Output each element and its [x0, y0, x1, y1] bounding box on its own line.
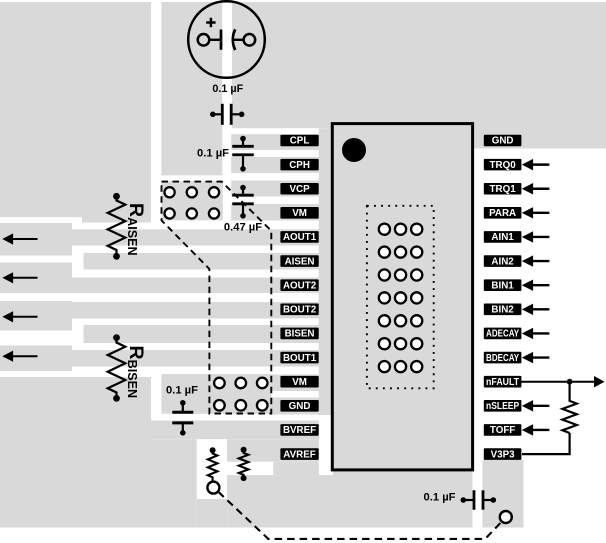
- trace BISEN: [84, 325, 332, 343]
- svg-text:PARA: PARA: [489, 208, 516, 219]
- trace AISEN: [84, 253, 332, 270]
- pin label TRQ1 (right col): [484, 183, 522, 195]
- svg-text:0.1 µF: 0.1 µF: [197, 148, 229, 160]
- svg-text:nSLEEP: nSLEEP: [486, 401, 520, 412]
- svg-text:AIN2: AIN2: [491, 256, 514, 267]
- pin label nFAULT (right col): [484, 376, 522, 388]
- node nFAULT junction: [567, 379, 573, 385]
- capacitor C1 0.1 uF (horizontal, VM bulk): [210, 104, 244, 125]
- capacitor C4 0.1 uF label (GND bypass, bottom-left): [166, 385, 198, 397]
- copper margin column along IC left edge: [319, 128, 331, 415]
- capacitor C2 0.1 uF label (CPL-CPH): [197, 148, 229, 160]
- pin label VM (left col): [280, 376, 318, 388]
- pin label BOUT1 (left col): [280, 352, 318, 364]
- pin label AIN1 (right col): [484, 231, 522, 243]
- input arrow into AIN2: [522, 255, 550, 266]
- pin label BIN1 (right col): [484, 279, 522, 291]
- trace VM bottom: [271, 375, 331, 392]
- input arrow into AIN1: [522, 231, 550, 242]
- svg-text:0.1 µF: 0.1 µF: [212, 83, 243, 95]
- input arrow into BDECAY: [522, 352, 550, 363]
- input arrow into PARA: [522, 207, 550, 218]
- capacitor C1 0.1 uF label (top): [212, 83, 243, 95]
- copper pour bottom-left block: [0, 377, 151, 528]
- svg-text:0.1 µF: 0.1 µF: [424, 492, 456, 504]
- svg-text:CPL: CPL: [290, 136, 310, 147]
- pin label AISEN (left col): [280, 255, 318, 267]
- wire pull-up to V3P3: [522, 433, 570, 454]
- capacitor C5 0.1 uF label (V3P3, bottom-right): [424, 492, 456, 504]
- capacitor C3 0.47 uF (VCP-VM): [232, 185, 254, 219]
- copper pour bottom-center blocks around BVREF/AVREF: [151, 421, 333, 528]
- svg-text:VM: VM: [292, 208, 307, 219]
- wire nFAULT to pull-up node: [521, 381, 570, 383]
- svg-text:nFAULT: nFAULT: [486, 377, 519, 388]
- pin label AIN2 (right col): [484, 255, 522, 267]
- output arrow BOUT1: [2, 351, 37, 362]
- output arrow BOUT2: [2, 311, 37, 322]
- capacitor C5 0.1 uF (V3P3 horizontal): [461, 490, 497, 510]
- op-amp U1 motor driver IC body: [332, 124, 472, 470]
- pin label BISEN (left col): [280, 328, 318, 340]
- trace AOUT2: [0, 263, 331, 294]
- svg-text:BVREF: BVREF: [283, 425, 316, 436]
- trace CPH: [231, 157, 331, 173]
- pin label ADECAY (right col): [484, 328, 522, 340]
- svg-text:RAISEN: RAISEN: [125, 203, 147, 256]
- svg-text:AOUT1: AOUT1: [283, 232, 317, 243]
- svg-text:0.1 µF: 0.1 µF: [166, 385, 198, 397]
- svg-text:BIN2: BIN2: [491, 305, 514, 316]
- pin label AVREF (left col): [280, 448, 318, 460]
- input arrow into BIN1: [522, 280, 550, 291]
- svg-text:CPH: CPH: [289, 160, 310, 171]
- resistor RBISEN: [108, 334, 147, 401]
- trace AOUT1: [0, 223, 331, 256]
- vias upper 3x2 grid: [165, 187, 220, 218]
- svg-text:GND: GND: [492, 136, 514, 147]
- resistor RAISEN: [108, 193, 147, 260]
- input arrow into nSLEEP: [522, 400, 550, 411]
- svg-text:TRQ1: TRQ1: [490, 184, 517, 195]
- pin label BOUT2 (left col): [280, 304, 318, 316]
- svg-text:BOUT2: BOUT2: [283, 305, 317, 316]
- copper pour top-right block: [331, 2, 606, 149]
- svg-text:VM: VM: [292, 377, 307, 388]
- resistor RVREF right: [239, 447, 249, 481]
- input arrow into ADECAY: [522, 328, 550, 339]
- svg-text:TRQ0: TRQ0: [490, 160, 517, 171]
- trace VCP: [231, 181, 331, 197]
- svg-text:AOUT2: AOUT2: [283, 280, 317, 291]
- capacitor C4 0.1 uF (bottom-left vertical): [172, 400, 193, 436]
- svg-text:V3P3: V3P3: [491, 449, 516, 460]
- pin label CPH (left col): [280, 159, 318, 171]
- capacitor C2 0.1 uF (CPL-CPH): [232, 136, 254, 172]
- svg-text:BIN1: BIN1: [491, 280, 514, 291]
- pin label GND (left col): [280, 400, 318, 412]
- copper pour V3P3 column: [483, 460, 524, 528]
- svg-text:GND: GND: [289, 401, 311, 412]
- pin label AOUT2 (left col): [280, 279, 318, 291]
- pin label nSLEEP (right col): [484, 400, 522, 412]
- dashed bottom trace to test pads: [218, 492, 501, 539]
- test pad bottom-right: [500, 511, 512, 523]
- copper pour center-bottom VM/GND via block: [161, 374, 271, 414]
- copper pour upper via patch: [162, 181, 223, 220]
- svg-text:VCP: VCP: [289, 184, 310, 195]
- trace BOUT1: [0, 346, 331, 372]
- pin label BIN2 (right col): [484, 304, 522, 316]
- svg-text:AISEN: AISEN: [285, 256, 315, 267]
- svg-text:AVREF: AVREF: [283, 449, 315, 460]
- input arrow into TOFF: [522, 424, 550, 435]
- svg-text:BISEN: BISEN: [285, 329, 315, 340]
- pin label BVREF (left col): [280, 424, 318, 436]
- input arrow into TRQ0: [522, 159, 550, 170]
- svg-text:BDECAY: BDECAY: [486, 353, 519, 364]
- dashed sense/via region outline: [162, 182, 272, 414]
- thermal pad dotted outline: [367, 206, 434, 388]
- svg-text:ADECAY: ADECAY: [486, 329, 519, 340]
- trace CPL: [231, 134, 331, 150]
- trace VM pin strip: [231, 204, 331, 221]
- output arrow AOUT1: [2, 233, 37, 244]
- capacitor C3 0.47 uF label: [224, 222, 262, 234]
- svg-text:0.47 µF: 0.47 µF: [224, 222, 262, 234]
- input arrow into BIN2: [522, 304, 550, 315]
- input arrow into TRQ1: [522, 183, 550, 194]
- output arrow AOUT2: [2, 272, 37, 283]
- pin label VCP (left col): [280, 183, 318, 195]
- pin label TRQ0 (right col): [484, 159, 522, 171]
- thermal vias 3x7 grid: [379, 224, 423, 373]
- pin label V3P3 (right col): [484, 448, 522, 460]
- vias lower 3x2 grid: [214, 378, 267, 411]
- resistor pull-up on nFAULT: [562, 382, 576, 433]
- copper pour top-left block: [0, 2, 151, 223]
- wire VM trace through bulk capacitor (white): [222, 0, 232, 128]
- copper pour under IC: [333, 470, 473, 528]
- pin label PARA (right col): [484, 207, 522, 219]
- svg-text:BOUT1: BOUT1: [283, 353, 317, 364]
- copper pour center-top block: [161, 2, 331, 175]
- pin label VM (left col): [280, 207, 318, 219]
- trace BOUT2: [0, 301, 331, 331]
- pin label BDECAY (right col): [484, 352, 522, 364]
- pin label AOUT1 (left col): [280, 231, 318, 243]
- pin label TOFF (right col): [484, 424, 522, 436]
- pin label CPL (left col): [280, 135, 318, 147]
- pin 1 marker dot: [342, 138, 366, 162]
- resistor RVREF left with test pad: [207, 447, 219, 493]
- trace GND bottom: [271, 398, 331, 415]
- wire nFAULT output with arrow: [570, 376, 605, 387]
- capacitor bulk electrolytic (circle with polarity): [188, 1, 265, 78]
- pin label GND (right col): [484, 135, 522, 147]
- svg-text:TOFF: TOFF: [490, 425, 515, 436]
- svg-text:AIN1: AIN1: [491, 232, 514, 243]
